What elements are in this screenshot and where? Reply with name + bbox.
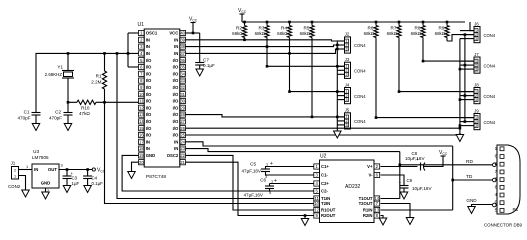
svg-text:2: 2 [14,169,16,173]
svg-text:IN: IN [146,51,150,56]
connector J5 CON4 [345,113,351,129]
svg-text:J6: J6 [474,21,479,26]
svg-text:I/O: I/O [146,105,152,110]
wire U1 pin38 row3 to J2 pin2 [186,45,345,47]
svg-text:R2IN: R2IN [363,213,373,218]
svg-text:31: 31 [180,92,185,97]
svg-text:13: 13 [139,112,144,117]
svg-text:T2OUT: T2OUT [359,201,373,206]
capacitor C9 10uF polarized [400,185,409,187]
svg-text:15: 15 [139,126,144,131]
svg-text:20: 20 [139,160,144,165]
svg-text:I/O: I/O [173,92,179,97]
wire R5 net to J5 pin1 [312,116,345,118]
svg-text:68kΩ: 68kΩ [232,31,243,36]
svg-text:CON4: CON4 [484,63,496,68]
svg-text:C1: C1 [24,110,30,115]
svg-text:V+: V+ [367,164,373,169]
svg-text:CON4: CON4 [484,120,496,125]
svg-text:J7: J7 [474,52,479,57]
svg-text:36: 36 [180,58,185,63]
wire U1 pin1 bracket [128,32,139,34]
wire U2 V- to C9 [381,175,405,184]
wire U1 pin22 to U2 R1OUT staircase [186,155,314,210]
svg-text:I/O: I/O [146,126,152,131]
svg-text:CON2: CON2 [8,184,21,189]
svg-text:3: 3 [495,177,498,182]
ground below DB9 GND [468,207,476,214]
svg-text:LM7805: LM7805 [32,155,49,160]
wire U1 pin21 to U2 R2OUT staircase [186,162,314,215]
svg-text:3: 3 [346,123,348,127]
IC U3 voltage regulator LM7805 body [32,164,59,188]
svg-text:3: 3 [346,73,348,77]
capacitor C1 470pF [32,112,41,114]
wire bracket to U1 pin6 [128,66,139,68]
U1 pin number boxes and labels [139,30,186,164]
resistor R2 68k pull-up [243,21,246,24]
svg-text:J1: J1 [11,161,16,166]
ground below C7 [196,69,204,76]
svg-text:3: 3 [475,37,477,41]
svg-text:I/O: I/O [173,85,179,90]
resistor R3 68k pull-up [266,21,269,24]
svg-text:2: 2 [495,161,498,166]
svg-text:GND: GND [41,181,51,186]
svg-text:OSC2: OSC2 [167,153,179,158]
svg-text:GND: GND [466,198,477,203]
svg-text:1: 1 [271,179,273,183]
svg-text:2.68KHZ: 2.68KHZ [45,72,63,77]
connector J6 CON4 [474,27,480,43]
capacitor C8 10uF polarized [420,163,422,171]
svg-text:R1: R1 [96,74,102,79]
wire R3 net to J3 pin1 [267,65,345,67]
svg-text:I/O: I/O [146,99,152,104]
svg-text:CON4: CON4 [354,119,366,124]
svg-text:11: 11 [139,99,144,104]
ground below J1 [22,190,30,197]
svg-text:5: 5 [495,207,498,212]
ground below C1 [32,124,40,131]
svg-text:21: 21 [180,160,185,165]
svg-text:68kΩ: 68kΩ [300,31,311,36]
svg-text:I/O: I/O [146,92,152,97]
svg-text:10: 10 [139,92,144,97]
wire U1 pin26 row15 to J9 pin3 rail [186,127,460,129]
svg-text:CON4: CON4 [354,69,366,74]
connector J1 CON2 [12,167,19,180]
svg-text:CONNECTOR DB9: CONNECTOR DB9 [484,223,522,228]
wire U2 R1IN right to vertical [381,209,453,211]
svg-text:R1IN: R1IN [363,208,373,213]
connector J3 CON4 [345,62,351,78]
svg-text:35: 35 [180,65,185,70]
svg-text:28: 28 [180,112,185,117]
svg-text:47µF,16V: 47µF,16V [241,169,261,174]
svg-text:IN: IN [146,37,150,42]
wire U1 pin24 to R1IN TD vertical [186,142,453,146]
svg-text:Y1: Y1 [57,65,63,70]
svg-text:IN: IN [146,146,150,151]
svg-text:CON4: CON4 [484,94,496,99]
svg-text:RD: RD [466,159,473,165]
svg-text:GND: GND [146,153,155,158]
connector J8 CON4 [474,88,480,104]
svg-text:CON4: CON4 [354,94,366,99]
resistor R9 68k pull-up [446,21,449,24]
svg-text:J5: J5 [345,108,350,113]
svg-text:68kΩ: 68kΩ [411,31,422,36]
svg-text:C7: C7 [203,58,209,63]
svg-text:R5: R5 [304,26,310,31]
svg-text:T2IN: T2IN [321,201,330,206]
svg-text:40: 40 [180,31,185,36]
svg-text:I/O: I/O [173,58,179,63]
svg-text:33: 33 [180,78,185,83]
wire bracket vertical pin1 to pin6 [127,33,129,67]
svg-text:IN: IN [146,139,150,144]
svg-text:C6: C6 [260,178,266,183]
svg-text:8: 8 [495,184,498,189]
svg-text:AD232: AD232 [345,184,361,190]
svg-text:0.1µF: 0.1µF [92,181,104,186]
svg-text:I/O: I/O [146,58,152,63]
node open circle VCC output [92,168,95,171]
wire DB9 GND pin5 [472,205,493,207]
svg-text:IN: IN [174,51,178,56]
ground below C4 [84,186,92,193]
svg-text:12: 12 [314,208,319,213]
IC U1 microcontroller P87LPC764 DIP-40 body [144,29,180,167]
svg-text:C1-: C1- [321,173,328,178]
svg-text:10µF,16V: 10µF,16V [412,186,432,191]
wire J1 pin2 to U3 IN [19,169,33,171]
svg-text:CON4: CON4 [484,33,496,38]
wire right ground rail pin3 [459,39,461,135]
resistor R4 68k pull-up [288,21,291,24]
svg-text:3: 3 [346,47,348,51]
svg-text:J8: J8 [474,82,479,87]
ground below C9 [400,192,408,199]
connector J7 CON4 [474,57,480,73]
wire U3 GND to ground [45,188,47,192]
node open circle DB9 pin2 [493,163,497,167]
svg-text:68kΩ: 68kΩ [387,31,398,36]
svg-text:12: 12 [139,105,144,110]
svg-text:IN: IN [146,44,150,49]
wire U1 pin25 row16 to right ground rail [186,134,460,136]
svg-text:C2-: C2- [321,189,328,194]
ground below right connector rail [456,135,464,142]
svg-text:R9: R9 [439,26,445,31]
svg-text:7: 7 [495,169,498,174]
svg-text:I/O: I/O [146,71,152,76]
svg-text:I/O: I/O [146,133,152,138]
svg-text:1: 1 [14,175,16,179]
svg-text:R8: R8 [415,26,421,31]
svg-text:I/O: I/O [146,65,152,70]
ground below R2IN [379,218,387,225]
ground below T2OUT [406,218,414,225]
resistor R7 68k pull-up [398,21,401,24]
crystal Y1 2.68KHZ [67,53,69,70]
svg-text:OUT: OUT [48,167,57,172]
svg-text:V-: V- [368,173,373,178]
svg-text:4: 4 [495,192,498,197]
capacitor C5 47uF between C1+ and C1- [266,167,314,170]
wire C7 drop [199,33,201,63]
wire U1 pin20 to ground [132,162,139,171]
svg-text:C2: C2 [55,110,61,115]
svg-text:0.1µF: 0.1µF [203,63,215,68]
IC U2 RS232 transceiver AD232 body [320,160,375,223]
svg-text:22: 22 [180,153,185,158]
svg-text:38: 38 [180,44,185,49]
wire R9 jog to J6 pin2 [447,35,474,41]
svg-text:IN: IN [174,139,178,144]
svg-text:R3: R3 [259,26,265,31]
svg-text:C1+: C1+ [321,164,329,169]
svg-text:I/O: I/O [173,65,179,70]
svg-text:C2+: C2+ [321,181,329,186]
wire VCC rail corner down to J6 pin1 [470,22,474,31]
wire C8 to VCC symbol [424,156,443,167]
svg-text:1: 1 [266,162,268,166]
svg-text:I/O: I/O [173,99,179,104]
wire U2 T1OUT up to DB9 RD line [381,198,400,200]
svg-text:470pF: 470pF [17,116,30,121]
wire U1 pin37 row4 to J2 pin3 [186,49,345,53]
DB9 pin squares [500,147,504,151]
svg-text:R1OUT: R1OUT [321,208,336,213]
capacitor C7 0.1uF [195,62,204,64]
wire U1 pin28 row13 jog to J5 net [186,115,313,117]
wire R4 net to J4 pin1 [290,91,345,93]
svg-text:27: 27 [180,119,185,124]
svg-text:J4: J4 [345,82,350,87]
DB9 pin numbers [495,146,498,213]
wire RD line to DB9 pin2 [400,164,493,166]
svg-text:C5: C5 [250,162,256,167]
svg-text:IN: IN [174,44,178,49]
svg-text:5: 5 [269,191,271,195]
resistor R1 2.2M [104,53,106,71]
power VCC symbol at C8 [441,155,446,157]
svg-text:3: 3 [346,98,348,102]
svg-text:VCC: VCC [169,31,178,36]
wire stub to ground under U2 left [304,216,306,219]
wire U2 V+ to C8 [381,166,418,168]
ground under U2 left side [301,219,309,226]
wire U1 pin23 to T1OUT RD vertical [186,149,400,152]
wire crystal bottom net to U1 pin 11 [68,101,139,103]
svg-text:J2: J2 [345,32,350,37]
svg-text:R4: R4 [281,26,287,31]
node open circle DB9 pin5 [493,203,497,207]
svg-text:37: 37 [180,51,185,56]
connector J9 CON4 [474,114,480,130]
svg-text:J3: J3 [345,57,350,62]
svg-text:19: 19 [139,153,144,158]
svg-text:I/O: I/O [173,119,179,124]
svg-text:14: 14 [139,119,144,124]
wire U3 OUT to VCC node [59,169,92,171]
svg-text:P87C748: P87C748 [146,174,166,180]
svg-text:R2OUT: R2OUT [321,213,336,218]
svg-text:IN: IN [174,37,178,42]
power VCC symbol feeding pull-up rail [240,13,245,15]
svg-text:R6: R6 [368,26,374,31]
svg-text:68kΩ: 68kΩ [435,31,446,36]
wire VCC rail across top [242,21,465,23]
svg-text:CON4: CON4 [354,43,366,48]
wire R6 to J9 pin1 [376,117,474,119]
svg-text:R2: R2 [236,26,242,31]
svg-text:470pF: 470pF [49,116,62,121]
svg-text:+: + [270,161,273,167]
svg-text:10µF,16V: 10µF,16V [405,156,425,161]
wire TD line to DB9 pin3 [453,179,493,181]
svg-text:P1: P1 [513,207,519,212]
wire U1 pin39 row2 to J2 pin1 [186,40,345,41]
svg-text:I/O: I/O [173,126,179,131]
svg-text:3: 3 [475,67,477,71]
wire crystal top net to U1 pin 4 [36,53,139,112]
svg-text:18: 18 [139,146,144,151]
svg-text:9: 9 [495,200,498,205]
capacitor C3 1uF [66,170,68,177]
svg-text:C9: C9 [407,178,413,183]
capacitor C4 0.1uF [87,170,89,177]
svg-text:2.2M: 2.2M [91,80,101,85]
svg-text:IN: IN [34,167,38,172]
svg-text:6: 6 [495,154,498,159]
resistor R5 68k pull-up [311,21,314,24]
resistor R10 47k in crystal bottom net [77,100,96,105]
svg-text:I/O: I/O [146,119,152,124]
wire U2 R2IN to ground [381,216,384,219]
svg-text:R7: R7 [391,26,397,31]
svg-text:29: 29 [180,105,185,110]
svg-text:R10: R10 [81,106,90,111]
svg-text:U1: U1 [138,22,145,28]
svg-text:I/O: I/O [173,71,179,76]
svg-text:39: 39 [180,37,185,42]
ground at U1 pin20 [128,172,136,179]
connector J4 CON4 [345,88,351,104]
capacitor C2 470pF [67,102,69,112]
svg-text:34: 34 [180,71,185,76]
svg-text:68kΩ: 68kΩ [277,31,288,36]
svg-text:32: 32 [180,85,185,90]
svg-text:I/O: I/O [173,133,179,138]
svg-text:26: 26 [180,126,185,131]
svg-text:30: 30 [180,99,185,104]
svg-text:1: 1 [495,146,498,151]
svg-text:25: 25 [180,133,185,138]
svg-text:I/O: I/O [146,78,152,83]
svg-text:U2: U2 [320,154,327,160]
wire crystal net down to U2 T1IN [117,53,314,198]
wire left connector rail to ground [336,41,338,131]
svg-text:23: 23 [180,146,185,151]
resistor R6 68k pull-up [375,21,378,24]
wire U2 T2OUT to ground [381,204,411,218]
svg-text:47kΩ: 47kΩ [79,111,90,116]
svg-text:17: 17 [139,139,144,144]
ground below C2 [64,124,72,131]
svg-text:IN: IN [174,146,178,151]
svg-text:+: + [274,178,277,184]
svg-text:J9: J9 [474,108,479,113]
U2 pin boxes and labels [314,164,380,218]
wire R7 to J8 pin1 [399,91,474,93]
svg-text:47µF,16V: 47µF,16V [243,193,263,198]
svg-text:13: 13 [375,208,380,213]
wire J1 pin1 to ground [19,176,26,191]
connector J2 CON4 [345,37,351,53]
svg-text:68kΩ: 68kΩ [255,31,266,36]
capacitor C6 47uF between C2+ and C2- [270,183,314,185]
svg-text:68kΩ: 68kΩ [364,31,375,36]
svg-text:1µF: 1µF [72,181,80,186]
resistor R8 68k pull-up [422,21,425,24]
svg-text:I/O: I/O [173,105,179,110]
power VCC symbol at U1 pin 40 [192,23,194,34]
wire pin2 chain vertical [464,35,466,122]
svg-text:TD: TD [466,174,473,180]
svg-text:3: 3 [475,124,477,128]
svg-text:24: 24 [180,139,185,144]
svg-text:3: 3 [475,98,477,102]
node bracket crosses crystal net [127,52,130,55]
svg-text:16: 16 [139,133,144,138]
wire pin40 VCC net [186,32,200,34]
svg-text:I/O: I/O [173,78,179,83]
svg-text:C4: C4 [92,176,98,181]
svg-text:10: 10 [314,201,319,206]
wire U1 pin19 to U2 C2- net [122,155,314,191]
svg-text:OSC1: OSC1 [146,31,158,36]
svg-text:C3: C3 [72,176,78,181]
svg-text:I/O: I/O [173,112,179,117]
ground below U3 [42,192,50,199]
svg-text:I/O: I/O [146,112,152,117]
ground below left connector rail [334,131,342,138]
wire R8 to J7 pin1 [423,60,474,62]
ground below C3 [63,186,71,193]
wire crystal bottom net down to U2 T2IN [105,102,314,203]
node open circle DB9 pin3 [493,178,497,182]
svg-text:I/O: I/O [146,85,152,90]
connector P1 DB9 body [497,145,520,214]
